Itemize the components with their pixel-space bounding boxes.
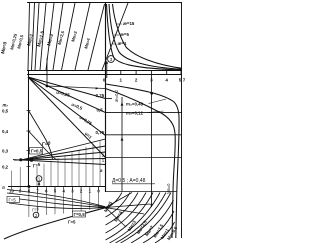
example arrow line to right — [47, 86, 106, 90]
circled 1 — [36, 176, 42, 182]
label dashes — [113, 24, 123, 44]
right border — [181, 3, 183, 239]
svg-text:Г=0,5: Г=0,5 — [74, 212, 86, 217]
up arrow under circle 1 — [38, 182, 40, 187]
svg-text:0,5: 0,5 — [2, 109, 9, 114]
svg-text:Г=0: Г=0 — [41, 141, 51, 148]
fan line Mv=0.5 — [35, 3, 39, 70]
svg-text:2: 2 — [80, 189, 83, 194]
svg-text:6: 6 — [45, 189, 48, 194]
dot on C1 — [150, 92, 153, 95]
svg-text:Мв=4: Мв=4 — [113, 210, 123, 223]
svg-text:8: 8 — [28, 189, 31, 194]
svg-text:æ=0,2: æ=0,2 — [114, 89, 119, 102]
svg-text:5: 5 — [179, 78, 182, 83]
vertical x=122 — [121, 97, 123, 192]
svg-text:Мв=2,5: Мв=2,5 — [57, 30, 66, 46]
a-axis labels — [9, 189, 100, 194]
top-left fan Mv lines — [28, 3, 128, 70]
a-axis — [8, 187, 106, 190]
example dot on axis — [27, 185, 30, 188]
ray r1 — [106, 193, 123, 210]
svg-text:0: 0 — [103, 78, 106, 83]
vertical x=151.5 — [151, 75, 153, 208]
svg-text:u=0,25: u=0,25 — [56, 90, 71, 98]
ray r5 — [106, 193, 154, 241]
curve ae=15 — [113, 4, 183, 68]
fan line Mv=4 — [88, 4, 105, 70]
big bottom curve — [4, 208, 106, 239]
svg-text:Г=0,5: Г=0,5 — [31, 149, 43, 154]
curve C1 — [106, 84, 180, 238]
svg-text:1: 1 — [89, 189, 92, 194]
fan line Mv=0 — [28, 3, 30, 70]
big curves C1 C2 — [106, 84, 180, 238]
top border — [27, 2, 182, 4]
ray r2 — [106, 193, 131, 218]
svg-text:Мв=4: Мв=4 — [83, 37, 91, 49]
T axis labels — [103, 78, 187, 83]
ray r7 — [116, 193, 167, 243]
svg-text:Г=5: Г=5 — [68, 220, 76, 225]
svg-text:0,4: 0,4 — [2, 129, 9, 134]
fan line Mv=2 — [53, 3, 63, 70]
ray r9 — [131, 200, 174, 243]
svg-text:Мв=0: Мв=0 — [166, 183, 171, 194]
u=0.75 line — [28, 77, 106, 136]
circled 2 — [33, 212, 39, 218]
arm a1 — [106, 193, 133, 208]
m3 labels — [126, 102, 144, 116]
m3 dashes — [148, 99, 167, 113]
svg-text:1: 1 — [120, 78, 123, 83]
fan line Mv=2.5 — [62, 3, 76, 70]
ray r6 — [110, 193, 161, 243]
svg-text:0,3: 0,3 — [2, 149, 9, 154]
ray r8 — [121, 193, 172, 243]
svg-text:u=0,5: u=0,5 — [71, 102, 84, 111]
dot left on gamma bundle — [19, 158, 22, 161]
ray3 — [21, 152, 106, 160]
svg-text:m₂: m₂ — [3, 103, 9, 108]
svg-text:Г=5: Г=5 — [32, 162, 41, 169]
svg-text:3: 3 — [71, 189, 74, 194]
svg-text:u=0,75: u=0,75 — [78, 115, 93, 127]
T-axis ticks — [106, 71, 182, 75]
vertical grid below a-axis — [29, 187, 99, 218]
up arrowhead on x=122 — [121, 102, 124, 106]
arm a3 — [106, 208, 145, 215]
scale labels on central axis — [96, 93, 105, 173]
ray r10 — [143, 211, 174, 243]
svg-text:0,25: 0,25 — [96, 93, 105, 98]
bottom-right fan labels — [103, 200, 179, 241]
arm a4 — [106, 208, 127, 228]
fan line Mv=1 — [40, 3, 46, 70]
vertical grid above a-axis — [12, 141, 101, 186]
m2 ticks — [27, 111, 31, 167]
svg-text:а: а — [100, 168, 103, 173]
svg-text:Г=5: Г=5 — [9, 197, 17, 202]
u=0.5 line — [28, 77, 106, 113]
right panel horizontals — [106, 99, 183, 192]
svg-text:m₃=0,48: m₃=0,48 — [126, 102, 144, 107]
pinch arms from P — [106, 193, 151, 228]
circled 3 — [108, 56, 115, 63]
svg-text:æ=5: æ=5 — [120, 32, 129, 37]
svg-text:Мв=2: Мв=2 — [46, 33, 54, 46]
right panel verticals — [122, 75, 152, 208]
lower-left fan band curves — [7, 190, 106, 209]
example vertical with dot — [46, 58, 48, 86]
svg-text:5: 5 — [54, 189, 57, 194]
fan line Mv=1.5 — [46, 3, 54, 70]
ray r11 — [155, 222, 175, 243]
ray r4 — [106, 193, 147, 234]
ray r3 — [106, 193, 139, 226]
svg-text:0: 0 — [97, 189, 100, 194]
fan curve f1 — [7, 190, 106, 207]
svg-text:3: 3 — [110, 57, 113, 62]
top-left fan labels — [0, 30, 91, 54]
fan curve f3 — [8, 198, 106, 208]
horizontal line y=70 — [27, 70, 182, 72]
decay curves ae — [107, 4, 183, 70]
Gamma fan (middle-left) — [13, 111, 106, 165]
svg-text:4: 4 — [63, 189, 66, 194]
ray4 — [14, 159, 106, 161]
curve ae=5 — [109, 4, 182, 69]
horizontal T-axis y=74.5 — [27, 74, 182, 76]
svg-text:Т: Т — [183, 78, 185, 83]
svg-text:Мв=3: Мв=3 — [70, 30, 78, 42]
svg-text:0,5: 0,5 — [97, 108, 104, 113]
u=1 line — [28, 77, 106, 158]
svg-text:Д=0,5 ; А=0,48: Д=0,5 ; А=0,48 — [112, 178, 146, 184]
fan curve f4 — [9, 203, 106, 209]
boxed G=5 label left — [7, 197, 20, 203]
fan line Mv=0.25 — [32, 3, 35, 70]
svg-text:4: 4 — [165, 78, 168, 83]
labels G=0.5 / G=5 lower — [68, 211, 86, 225]
svg-text:2: 2 — [135, 78, 138, 83]
G=0 ray — [21, 139, 106, 160]
svg-text:Мв=5: Мв=5 — [103, 200, 113, 213]
central vertical axis — [105, 3, 107, 193]
svg-text:0,75: 0,75 — [96, 130, 105, 135]
curve K2 from m2=0.4 tick — [29, 131, 57, 160]
arrow up near axis — [106, 61, 109, 79]
curve ae=1 — [107, 4, 183, 70]
svg-text:Мв=0: Мв=0 — [0, 41, 8, 54]
svg-text:0,2: 0,2 — [2, 165, 9, 170]
down arrowhead on x=151.5 — [150, 204, 153, 208]
bottom-right long rays — [106, 193, 175, 243]
svg-text:æ=1: æ=1 — [118, 41, 127, 46]
svg-text:æ=15: æ=15 — [123, 21, 135, 26]
svg-text:Г=5: Г=5 — [32, 206, 40, 212]
u-fan — [28, 77, 106, 158]
fan line Mv=5 — [102, 3, 128, 70]
curve C2 — [106, 89, 176, 239]
ray2 — [21, 146, 106, 160]
fan line Mv=3 — [75, 3, 90, 70]
fan curve f2 — [7, 193, 106, 207]
curve K1 from m2=0.5 tick — [29, 111, 53, 160]
svg-text:u=1: u=1 — [84, 131, 93, 140]
ray5 — [13, 160, 106, 165]
svg-text:m₃=0,12: m₃=0,12 — [126, 111, 144, 116]
arm a2 — [106, 204, 151, 208]
svg-text:а: а — [2, 185, 5, 191]
left vertical axis x=28.5 — [28, 70, 30, 187]
u=0.25 line — [28, 77, 106, 99]
m2 scale labels — [2, 103, 9, 170]
dot right on gamma bundle — [30, 159, 33, 162]
